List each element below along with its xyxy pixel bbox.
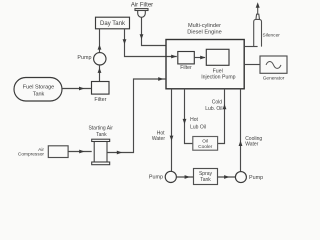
- arrow on air wire (down): [140, 34, 144, 39]
- wire: filter up to pump: [99, 65, 101, 82]
- arrow into engine (starting air): [158, 77, 163, 81]
- svg-text:Filter: Filter: [94, 97, 106, 103]
- svg-text:Pump: Pump: [249, 175, 263, 181]
- silencer label: [263, 32, 281, 38]
- wire: starting air tank to engine: [107, 79, 166, 153]
- svg-text:Pump: Pump: [149, 175, 163, 181]
- pump P1 (fuel transfer): [77, 53, 106, 65]
- svg-text:Air Filter: Air Filter: [131, 2, 153, 8]
- arrow up from silencer: [256, 2, 260, 8]
- svg-text:Tank: Tank: [96, 132, 107, 138]
- engine label: [187, 23, 222, 35]
- svg-text:Injection Pump: Injection Pump: [201, 75, 235, 81]
- fuel injection pump box: [201, 49, 235, 80]
- wire: day tank down and into engine filter: [125, 29, 177, 57]
- hot water label: [152, 131, 165, 143]
- wire: compressor to starting air tank: [68, 151, 92, 153]
- svg-text:Spray: Spray: [199, 171, 213, 177]
- wire: hot water from engine down to pump P2: [171, 89, 173, 171]
- arrow up cooling water: [239, 140, 243, 146]
- wire: filter to injection pump: [194, 57, 205, 59]
- arrow into pump P3: [224, 175, 229, 179]
- svg-text:Generator: Generator: [263, 75, 285, 81]
- starting air tank label: [88, 126, 113, 138]
- filter F1 box: [92, 82, 110, 104]
- cold lub oil label: [205, 100, 222, 112]
- svg-text:Compressor: Compressor: [18, 152, 45, 158]
- silencer: [254, 7, 262, 46]
- generator G box: [260, 56, 287, 81]
- svg-text:Hot: Hot: [190, 117, 198, 123]
- arrow into tank: [79, 150, 84, 154]
- svg-text:Water: Water: [152, 136, 165, 142]
- hot lub oil label: [190, 117, 206, 130]
- wire: cooling water from pump P3 up to engine: [240, 89, 242, 172]
- arrow into spray tank: [185, 175, 190, 179]
- starting air tank: [92, 139, 110, 165]
- arrow up to pump: [98, 68, 102, 73]
- svg-text:Starting Air: Starting Air: [88, 126, 113, 132]
- svg-text:Pump: Pump: [77, 55, 91, 61]
- svg-text:Diesel Engine: Diesel Engine: [187, 29, 222, 35]
- engine filter box: [178, 52, 195, 71]
- oil cooler box: [193, 137, 218, 151]
- svg-text:Fuel: Fuel: [213, 68, 223, 74]
- day tank box: [96, 17, 130, 29]
- pump P3 (cooling water): [235, 172, 263, 183]
- engine box: [166, 40, 244, 89]
- svg-text:Lub Oil: Lub Oil: [190, 125, 206, 131]
- wire: engine exhaust to silencer: [244, 46, 257, 48]
- svg-text:Water: Water: [245, 141, 258, 147]
- svg-text:Day Tank: Day Tank: [100, 21, 126, 27]
- arrow down hot lub oil: [183, 119, 187, 124]
- pump P2 (hot water circulating): [149, 171, 176, 182]
- wire: air filter down and into engine: [142, 17, 167, 45]
- arrow into injection pump: [200, 56, 205, 60]
- svg-text:Lub. Oil: Lub. Oil: [205, 106, 222, 112]
- cooling water label: [245, 136, 262, 147]
- wire: spray tank to pump P3: [218, 176, 236, 178]
- fuel storage tank: [14, 78, 62, 102]
- arrow down hot water: [170, 136, 174, 141]
- svg-text:Oil: Oil: [202, 138, 208, 144]
- svg-text:Filter: Filter: [180, 65, 192, 71]
- svg-text:Tank: Tank: [33, 91, 45, 97]
- wire: cold lub oil from cooler up to engine: [218, 89, 225, 144]
- wire: pump up to day tank: [99, 29, 101, 53]
- arrow into engine filter: [171, 55, 176, 59]
- air filter AF label: [131, 2, 153, 8]
- wire: engine to generator: [244, 64, 260, 66]
- svg-text:Tank: Tank: [200, 177, 211, 183]
- air filter AF icon: [135, 9, 148, 18]
- arrow up cold lub oil: [223, 104, 227, 109]
- arrow into filter: [79, 87, 84, 91]
- air compressor box: [18, 146, 68, 158]
- arrow right on starting air wire: [117, 151, 122, 155]
- arrow up to day tank: [98, 45, 102, 50]
- wire: storage tank to filter: [62, 88, 92, 90]
- wire: pump P2 to spray tank: [176, 176, 193, 178]
- svg-text:Cooler: Cooler: [198, 144, 213, 150]
- spray tank box: [194, 169, 218, 185]
- wire: hot lub oil from engine down to oil cooler: [185, 89, 193, 144]
- svg-text:Silencer: Silencer: [263, 32, 281, 38]
- svg-text:Cold: Cold: [212, 100, 223, 106]
- svg-text:Multi-cylinder: Multi-cylinder: [188, 23, 221, 29]
- svg-text:Fuel Storage: Fuel Storage: [23, 84, 55, 90]
- arrow down on day tank outflow wire: [123, 39, 127, 44]
